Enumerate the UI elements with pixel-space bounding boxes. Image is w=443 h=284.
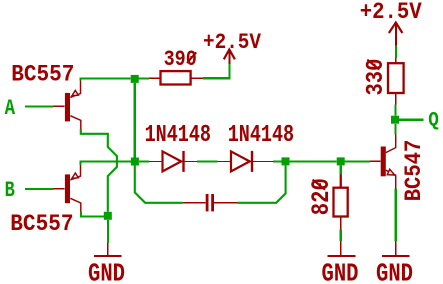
resistor R3 820: bottom pin [340,217,342,230]
wire A to Q1 base [25,105,53,107]
wire after-D2 square to R3 square [290,160,337,162]
resistor R2 330: bottom pin [395,93,397,105]
transistor Q3 collector pin diagonal [386,135,396,153]
wire Q1 collector zigzag down to gnd node [81,129,117,212]
supply +2.5V right: arrow chevron [389,23,403,34]
slash on zero of 820 [313,180,325,190]
transistor Q2 emitter pin diagonal [70,165,80,181]
ground GND1 bar [94,255,122,257]
wire trunk to capacitor (left branch) [135,158,183,203]
wire Q node up to R2 [394,105,396,116]
wire Q node to label [399,119,423,121]
resistor R3 820: top pin [340,165,342,187]
wire Q1 emitter up to top rail [81,79,131,81]
wire mid square to D1 [139,160,149,162]
capacitor C1: right pin [214,202,238,204]
ground GND3 stem [395,189,397,242]
ground GND2 stem [340,241,342,255]
capacitor C1 right plate [211,194,214,211]
svg-text:1N4148: 1N4148 [145,122,211,149]
slash on zero of 330 [367,60,379,70]
svg-text:390: 390 [164,47,197,72]
resistor R1 390: right pin [191,77,204,79]
diode D1 cathode pin [185,161,198,163]
wire trunk vertical [134,83,136,158]
diode D1 triangle [163,151,182,171]
svg-text:B: B [5,178,15,203]
svg-text:820: 820 [307,178,336,215]
slash on zero of 390 [187,52,196,63]
wire B to Q2 base [25,188,53,190]
svg-text:+2.5V: +2.5V [360,0,422,25]
capacitor C1: left pin [183,202,206,204]
transistor Q1 emitter pin diagonal [70,80,80,97]
wire Q3 collector up to Q node [394,124,396,135]
junction square after D2 [282,157,290,165]
junction square Q node [391,116,399,124]
resistor R2 330: top pin [395,58,397,63]
svg-text:GND: GND [376,258,413,284]
ground GND1 stem [107,243,109,255]
diode D1 cathode bar [182,151,184,172]
transistor Q3 emitter arrow [387,169,394,175]
resistor R3 820 body [334,188,348,217]
resistor R1 390: left pin [149,77,160,79]
svg-text:A: A [5,96,16,121]
supply +2.5V left: arrow chevron [224,50,235,60]
capacitor C1 left plate [206,194,209,211]
supply +2.5V left: arrow stem [228,50,230,64]
transistor Q2 BC557 bottom: base pin [54,188,65,190]
wire capacitor to after-D2 square (right branch) [238,165,286,202]
transistor Q1 base bar [65,93,70,122]
ground GND3 bar [382,255,410,257]
svg-text:+2.5V: +2.5V [203,30,262,55]
transistor Q3 emitter pin diagonal [386,170,396,188]
junction square gnd node [104,212,112,220]
svg-text:BC557: BC557 [10,211,73,237]
diode D2 cathode bar [251,151,253,172]
transistor Q1 emitter arrow [72,90,78,95]
svg-text:1N4148: 1N4148 [228,122,294,149]
transistor Q1 collector pin diagonal [70,116,81,129]
diode D2 1N4148: anode pin [218,161,231,163]
transistor Q2 base bar [65,174,70,203]
junction square at R3 top [337,157,345,165]
transistor Q3 base bar [381,147,386,177]
diode D2 triangle [231,151,250,171]
transistor Q2 collector pin diagonal [70,198,81,211]
svg-text:BC547: BC547 [401,140,427,202]
wire Q2 collector to gnd node [81,212,104,217]
wire R3 square to Q3 base [345,160,370,162]
transistor Q1 BC557 top: base pin [54,105,65,107]
transistor Q2 emitter arrow [72,173,78,178]
diode D2 cathode pin [253,161,273,163]
svg-text:330: 330 [363,59,390,96]
diode D1 1N4148: anode pin [149,161,161,163]
wire R2 to +2.5V arrow [395,46,397,58]
resistor R2 330 body [388,63,404,93]
wire R1 to +2.5V arrow [203,64,229,78]
wire gnd node down [107,220,109,243]
wire D1 to D2 [197,160,218,162]
supply +2.5V right: arrow stem [395,23,397,46]
svg-text:GND: GND [322,258,359,284]
svg-text:Q: Q [428,110,439,133]
ground GND2 bar [328,255,356,257]
junction square mid rail left [131,158,139,166]
transistor Q3 BC547: base pin [370,160,381,162]
wire D2 to mid-right square [273,160,282,162]
junction square top rail [131,75,139,83]
wire top rail square to R1 [139,78,150,80]
wire R3 to GND2 [340,230,342,242]
svg-text:GND: GND [88,258,125,284]
svg-text:BC557: BC557 [11,62,74,88]
wire Q2 emitter to mid rail [81,162,131,166]
resistor R1 390 body [161,71,191,84]
